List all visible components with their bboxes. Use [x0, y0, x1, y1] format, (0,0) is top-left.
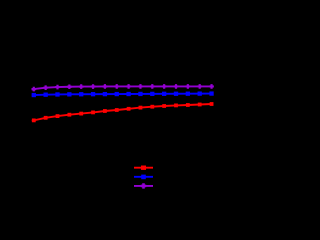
- node purple series markers: [32, 87, 37, 92]
- legend blue entry: [134, 176, 153, 178]
- plot background: [0, 0, 218, 218]
- legend red entry: [134, 167, 153, 169]
- node blue series markers: [32, 93, 36, 97]
- wire blue series line: [32, 94, 214, 96]
- wire purple series line: [32, 86, 214, 89]
- legend purple entry: [134, 185, 153, 187]
- node red series markers: [32, 118, 36, 122]
- wire red series line: [32, 104, 214, 121]
